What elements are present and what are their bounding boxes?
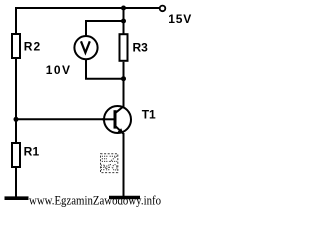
node voltmeter top tap <box>121 19 126 24</box>
svg-text:15V: 15V <box>168 12 192 26</box>
resistor R3 <box>120 34 128 61</box>
svg-text:www.EgzaminZawodowy.info: www.EgzaminZawodowy.info <box>29 194 161 208</box>
wire R3 to collector <box>123 62 125 107</box>
wire emitter <box>123 133 125 197</box>
wire R3 branch upper <box>123 8 125 34</box>
svg-text:R3: R3 <box>133 41 149 55</box>
svg-text:T1: T1 <box>142 108 156 122</box>
watermark stamp EZ INFO <box>101 154 118 173</box>
wire base <box>16 118 114 120</box>
wire left rail upper <box>15 7 17 34</box>
node voltmeter bottom tap <box>121 76 126 81</box>
voltmeter U1 <box>74 36 97 59</box>
svg-text:R1: R1 <box>24 144 40 158</box>
resistor R1 <box>12 143 20 167</box>
node base junction <box>14 117 19 122</box>
ground left <box>5 196 29 200</box>
wire voltmeter bottom <box>86 59 124 79</box>
wire voltmeter top <box>86 21 124 37</box>
wire top rail <box>16 7 159 9</box>
svg-text:R2: R2 <box>24 39 42 53</box>
terminal 15V <box>160 6 166 12</box>
transistor T1 <box>102 106 131 134</box>
wire left rail lower <box>15 168 17 197</box>
wire left rail middle <box>15 59 17 143</box>
node top rail / R3 <box>121 6 126 11</box>
resistor R2 <box>12 34 20 58</box>
ground emitter <box>109 196 140 199</box>
svg-text:10V: 10V <box>46 63 72 77</box>
